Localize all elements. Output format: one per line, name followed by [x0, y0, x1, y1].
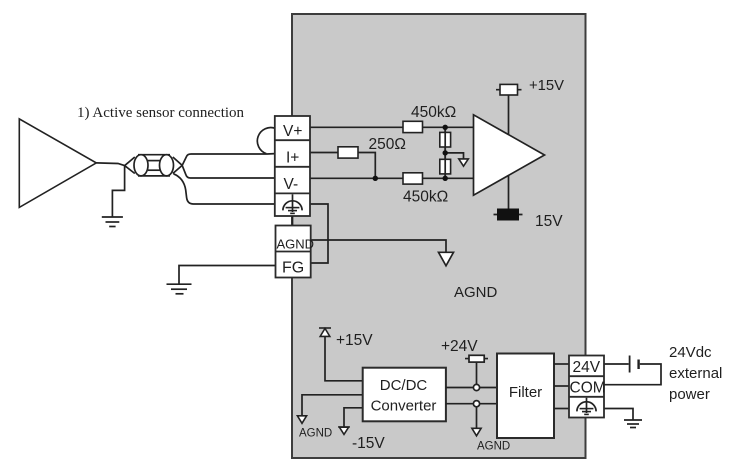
wire +24V to rail — [476, 363, 478, 385]
junction 250 ohm to V- net — [373, 176, 378, 181]
resistor divider lower (vertical) — [440, 159, 451, 174]
divider chain vertical wire — [444, 127, 446, 178]
shield terminal symbol — [283, 194, 302, 213]
wire resistor to op-amp noninverting input — [423, 126, 474, 128]
shielded twisted-pair cable — [125, 155, 183, 176]
svg-text:I+: I+ — [286, 150, 299, 167]
svg-text:15V: 15V — [535, 213, 563, 230]
svg-text:+24V: +24V — [441, 338, 478, 355]
wire cable shield to shield terminal — [174, 174, 276, 204]
ground (FG) — [167, 284, 192, 294]
terminal block upper (V+ I+ V- shield) — [275, 116, 310, 216]
wire V- to op-amp inverting input — [310, 177, 474, 179]
+15V supply symbol — [496, 84, 522, 95]
AGND arrow — [439, 252, 454, 265]
svg-text:power: power — [669, 386, 710, 403]
wire 0V rail to AGND arrow — [476, 407, 478, 428]
wire DC/DC to filter (0V rail) — [446, 403, 497, 405]
wire op-amp positive supply — [508, 95, 510, 210]
wire divider midpoint to analog ground arrow — [445, 153, 463, 159]
wire sensor output to cable — [96, 163, 124, 166]
svg-text:Filter: Filter — [509, 384, 542, 401]
wire FG to field ground — [179, 266, 276, 284]
wire I+ to resistor 250 — [310, 152, 338, 154]
wire cable conductor to V- — [182, 165, 275, 178]
AGND arrow (bottom middle) — [472, 428, 481, 436]
terminal block right (24V COM shield) — [569, 356, 604, 418]
svg-text:AGND: AGND — [454, 284, 498, 301]
resistor 250 — [338, 147, 358, 158]
AGND arrow (bottom left) — [297, 416, 306, 424]
node 0V rail (open circle) — [473, 401, 479, 407]
svg-text:V-: V- — [284, 176, 299, 193]
svg-text:24V: 24V — [573, 359, 601, 376]
filter — [497, 354, 554, 439]
wire filter to 24V terminal — [554, 363, 569, 365]
svg-text:+15V: +15V — [529, 78, 564, 94]
wire +15V to DC/DC — [325, 336, 363, 380]
battery (24Vdc source) — [630, 356, 639, 373]
+24V supply symbol — [465, 355, 488, 362]
svg-text:450kΩ: 450kΩ — [411, 104, 456, 121]
wire V+ to resistor 450k upper — [310, 126, 403, 128]
ground (external power) — [624, 420, 642, 428]
svg-text:AGND: AGND — [277, 237, 315, 252]
wire DC/DC to filter (24V rail) — [446, 387, 497, 389]
DC/DC converter — [363, 368, 446, 422]
wire battery to COM terminal — [604, 364, 661, 385]
wire shield terminal to FG terminal — [310, 204, 328, 263]
wire 24V terminal to battery — [604, 363, 629, 365]
svg-text:250Ω: 250Ω — [369, 136, 406, 153]
svg-text:-15V: -15V — [352, 435, 385, 452]
-15V arrow — [338, 427, 350, 434]
wire cable shield to ground — [112, 166, 124, 217]
wire DC/DC -15V output — [344, 408, 363, 427]
svg-text:AGND: AGND — [299, 428, 332, 440]
wire DC/DC AGND output — [302, 395, 363, 416]
node 24V rail (open circle) — [473, 384, 479, 390]
resistor divider upper (vertical) — [440, 132, 451, 147]
+15V arrow (up) — [319, 328, 331, 336]
svg-text:DC/DC: DC/DC — [380, 377, 428, 394]
-15V supply symbol (filled) — [494, 209, 523, 220]
svg-text:450kΩ: 450kΩ — [403, 189, 448, 206]
resistor 450k lower — [403, 173, 423, 184]
ground (sensor shield) — [102, 217, 123, 227]
analog ground arrow (divider) — [459, 159, 469, 166]
op-amp U1 — [474, 115, 545, 195]
svg-text:external: external — [669, 365, 722, 382]
wire shield cell to AGND cell — [292, 216, 294, 226]
wire filter to COM terminal — [554, 385, 569, 387]
svg-text:+15V: +15V — [336, 332, 373, 349]
wire cable conductor to I+ — [182, 154, 275, 166]
shield terminal symbol (right) — [577, 398, 596, 415]
svg-text:AGND: AGND — [477, 441, 510, 453]
svg-text:V+: V+ — [283, 123, 302, 140]
wire resistor 250 to V- net — [358, 153, 375, 179]
terminal block lower (AGND FG) — [276, 226, 311, 278]
svg-text:COM: COM — [570, 380, 606, 397]
sensor (triangle) — [19, 119, 96, 207]
svg-text:1) Active sensor connection: 1) Active sensor connection — [77, 105, 245, 121]
wire shield terminal to chassis ground — [604, 409, 633, 420]
resistor 450k upper — [403, 121, 423, 132]
wire AGND terminal to AGND arrow — [311, 240, 447, 252]
divider chain wire over resistors — [444, 127, 446, 178]
svg-text:24Vdc: 24Vdc — [669, 344, 712, 361]
module body (gray box) — [292, 14, 586, 458]
junction divider bottom — [443, 176, 448, 181]
junction divider top — [443, 125, 448, 130]
svg-text:Converter: Converter — [371, 398, 437, 415]
jumper V+ to I+ (arc) — [257, 128, 275, 154]
junction divider middle — [443, 150, 448, 155]
svg-text:FG: FG — [282, 260, 304, 277]
wire filter to shield terminal — [554, 408, 569, 410]
